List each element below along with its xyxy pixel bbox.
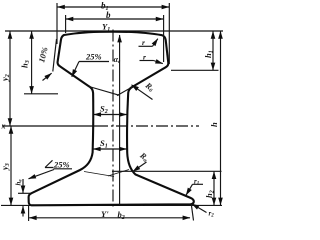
foot top construction line right [108,170,129,177]
Ra leader arrow [133,162,147,172]
b2 dimension line [29,217,190,219]
rail profile outline [29,32,194,206]
r1 underline [193,183,204,185]
svg-text:25%: 25% [85,52,102,62]
svg-text:b: b [106,10,111,20]
svg-text:r: r [143,53,146,62]
r2 leader arrow [192,204,207,213]
axis X-X horizontal [2,125,96,127]
b2 right extension line [191,204,193,221]
b1 dimension line [57,6,169,8]
25% lower underline [54,168,73,170]
25% upper underline [79,61,109,63]
b dimension line [66,18,163,20]
h1 extension line [171,69,219,71]
svg-text:h: h [209,122,219,127]
b left extension line [65,15,67,33]
center line Y1-Y' vertical dash-dot [112,30,114,209]
25% upper leader arrow [72,62,79,77]
25% lower angle symbol [45,160,54,167]
25% lower leader arrow [29,170,55,179]
hv extension line [18,192,31,194]
r mid corner underline [140,60,154,62]
under-head slope construction line left [89,87,119,96]
h2 dimension line [213,172,215,206]
h full height dimension line [220,31,222,205]
r top corner underline [139,45,153,47]
r mid corner leader arrow [154,61,163,64]
h3 extension line [24,93,58,95]
10% slope reference line [53,39,57,72]
top reference line (rail crown tangent) [5,30,223,32]
axis X-X dash-dot right part [96,125,199,127]
svg-text:r: r [142,38,145,47]
b1 right extension line [168,3,170,64]
h3 dimension line [31,31,33,93]
h2 extension line [112,170,222,172]
svg-text:Y': Y' [101,209,109,219]
bottom reference line (foot base extension) [1,204,222,206]
S1 dimension line [93,148,126,150]
h1 dimension line [212,31,214,70]
hv dimension upper outside arrow [22,179,24,193]
y2 dimension line [9,31,11,125]
b2 left extension line [28,206,30,221]
b1 left extension line [56,3,58,44]
svg-text:x: x [1,122,6,131]
head height inner dimension line [119,35,121,205]
10% angle leader arrow [43,73,52,80]
R6 leader arrow [132,85,153,100]
r top corner leader arrow [153,39,158,47]
foot top construction line left [84,172,114,177]
S2 dimension line [94,114,127,116]
under-head slope construction line right [117,87,133,96]
y3 dimension line [10,126,12,205]
r1 leader arrow [186,184,193,195]
hv dimension lower outside arrow [22,206,24,216]
svg-text:25%: 25% [53,160,70,170]
b right extension line [163,15,165,62]
